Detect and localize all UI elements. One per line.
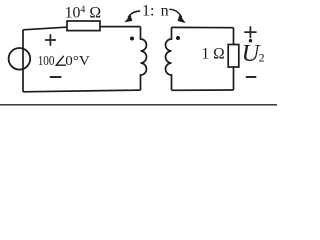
- polarity dot primary: [130, 37, 134, 41]
- svg-text:1:: 1:: [142, 3, 154, 20]
- wire: right loop right vertical lower: [233, 67, 235, 90]
- secondary coil L2: [166, 27, 172, 90]
- wire: right loop top: [172, 26, 234, 28]
- wire: left loop top (source top corner to primary top): [23, 27, 141, 30]
- label: - (U2 polarity): [246, 76, 256, 78]
- wire: left loop bottom: [23, 90, 141, 92]
- svg-text:100: 100: [38, 54, 55, 69]
- label: U2 dot (phasor): [249, 39, 252, 42]
- svg-text:1 Ω: 1 Ω: [202, 45, 225, 62]
- angle symbol: [56, 56, 66, 65]
- arrow to secondary: [169, 9, 182, 17]
- resistor R2 box (1 ohm): [228, 45, 239, 68]
- label: + (U2 polarity): [244, 26, 256, 38]
- voltage source circle (100∠0°V): [9, 48, 31, 70]
- svg-text:0°V: 0°V: [65, 54, 90, 69]
- polarity dot secondary: [176, 36, 180, 40]
- wire: right loop bottom: [172, 89, 234, 91]
- arrow to primary: [128, 11, 140, 18]
- label: - (source polarity): [50, 76, 62, 78]
- resistor R1 box (10^4 ohm): [67, 21, 100, 31]
- svg-text:n: n: [161, 3, 169, 20]
- svg-text:2: 2: [259, 51, 265, 65]
- wire: right loop right vertical upper: [233, 28, 235, 45]
- wire: left loop left vertical (through source): [22, 30, 24, 92]
- primary coil L1: [141, 27, 147, 91]
- figure baseline rule: [0, 104, 277, 106]
- label: + (source polarity): [45, 34, 56, 45]
